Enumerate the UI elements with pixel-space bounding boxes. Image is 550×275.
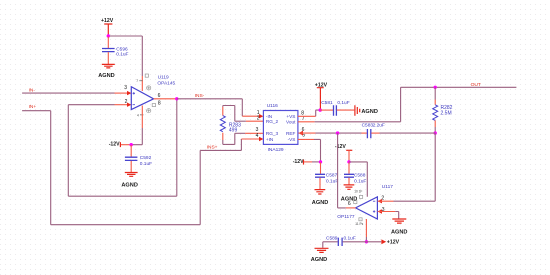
wire IN+ horizontal xyxy=(22,110,51,112)
svg-text:AGND: AGND xyxy=(121,183,137,189)
wire +12V rail to U119 xyxy=(108,36,142,76)
svg-text:4: 4 xyxy=(137,113,139,117)
wire INS+ up to pin 4 xyxy=(240,139,242,150)
junction +12V C596 xyxy=(107,34,110,37)
ground AGND under C592 xyxy=(121,173,137,189)
resistor R282 xyxy=(433,87,453,133)
svg-text:OP1177: OP1177 xyxy=(337,214,355,220)
junction R282 bottom xyxy=(434,131,437,134)
svg-text:U116: U116 xyxy=(267,103,278,109)
svg-text:+IN: +IN xyxy=(266,137,273,142)
svg-text:2: 2 xyxy=(257,115,260,121)
pin 2 stub U117 xyxy=(378,199,394,203)
decoration square upper left U117 xyxy=(354,201,357,204)
decoration square upper right U117 xyxy=(359,195,362,198)
svg-text:+12V: +12V xyxy=(101,18,114,24)
wire INS- down to pin 1 xyxy=(241,99,243,116)
wire C583 to R282 bottom xyxy=(380,132,436,134)
power -12V left xyxy=(109,141,132,147)
pin 3 stub U119 xyxy=(115,91,132,95)
svg-text:0.1uF: 0.1uF xyxy=(116,51,128,57)
op-amp U119 xyxy=(131,75,175,110)
svg-text:6: 6 xyxy=(158,93,161,99)
capacitor C589 xyxy=(323,236,382,246)
svg-text:0.1uF: 0.1uF xyxy=(326,179,338,185)
ground AGND under C587 xyxy=(312,190,328,207)
capacitor C592 xyxy=(125,145,152,172)
pin 3 stub U116 xyxy=(235,132,264,134)
wire Vout to OUT xyxy=(315,87,517,122)
power +12V top left xyxy=(101,18,114,36)
svg-text:-12V: -12V xyxy=(335,144,346,150)
ground AGND under C596 xyxy=(98,64,115,79)
svg-text:C587: C587 xyxy=(326,172,338,178)
wire RG_3 loop bottom xyxy=(223,133,235,144)
wire U119 V+ red xyxy=(141,76,143,91)
decoration square right U119 xyxy=(152,104,155,107)
resistor R283 xyxy=(220,107,241,140)
svg-text:0.1uF: 0.1uF xyxy=(354,179,366,185)
wire U119 V- to -12V xyxy=(131,128,142,145)
wire outer loop bottom xyxy=(51,224,201,226)
pin 7 stub U116 xyxy=(298,121,315,123)
power +12V mid xyxy=(315,82,328,110)
junction +12V C581 xyxy=(319,108,322,111)
pin 6 REF stub U116 xyxy=(298,131,315,136)
svg-text:8: 8 xyxy=(158,100,161,106)
decoration square lower U117 xyxy=(359,218,362,221)
svg-text:-12V: -12V xyxy=(293,159,304,165)
wire IN- to U119 pin 3 xyxy=(22,92,114,94)
power -12V mid left xyxy=(293,159,312,165)
svg-text:7: 7 xyxy=(136,79,138,83)
svg-text:2.2uF: 2.2uF xyxy=(373,123,385,129)
junction U119 output xyxy=(175,97,178,100)
svg-text:IN+: IN+ xyxy=(29,104,37,110)
svg-text:OPA145: OPA145 xyxy=(157,80,175,86)
wire pin8 to +12V junction xyxy=(316,110,321,116)
junction -12V C587 xyxy=(319,160,322,163)
capacitor C583 xyxy=(362,123,385,139)
svg-text:0.1uF: 0.1uF xyxy=(337,100,349,106)
svg-text:11 Ps: 11 Ps xyxy=(355,222,363,226)
capacitor C588 xyxy=(344,162,366,184)
junction C589 +12V xyxy=(365,240,368,243)
wire U117 V+ down xyxy=(365,219,367,237)
svg-text:-VS: -VS xyxy=(288,137,296,142)
svg-text:REF: REF xyxy=(286,131,296,136)
svg-text:C581: C581 xyxy=(321,100,333,106)
svg-text:2: 2 xyxy=(125,99,128,105)
wire feedback bottom xyxy=(68,195,177,197)
svg-text:4: 4 xyxy=(256,133,259,139)
wire feedback left side up xyxy=(67,105,69,197)
svg-text:3: 3 xyxy=(124,85,127,91)
svg-text:AGND: AGND xyxy=(391,229,407,235)
svg-text:2.5M: 2.5M xyxy=(441,110,452,116)
ground AGND sideways C581 xyxy=(355,105,378,116)
pin 8 stub U116 xyxy=(298,115,316,117)
junction OUT R282 xyxy=(434,86,437,89)
wire feedback right side down xyxy=(176,99,178,196)
svg-text:-12V: -12V xyxy=(109,141,120,147)
capacitor C581 xyxy=(320,100,354,116)
power -12V above C588 xyxy=(335,144,352,162)
svg-text:INS-: INS- xyxy=(195,93,205,99)
capacitor C596 xyxy=(102,37,129,65)
svg-text:INS+: INS+ xyxy=(207,144,218,150)
capacitor C587 xyxy=(315,162,338,189)
svg-text:RG_3: RG_3 xyxy=(266,131,279,136)
svg-text:U117: U117 xyxy=(382,184,393,190)
decoration square above U119 xyxy=(145,74,148,77)
wire riser up to INS+ xyxy=(199,150,201,224)
decoration circle-plus lower U119 xyxy=(147,109,151,113)
svg-text:3: 3 xyxy=(256,127,259,133)
svg-text:C589: C589 xyxy=(326,236,338,242)
op-amp U117 xyxy=(337,184,393,220)
ground AGND C589 xyxy=(311,242,329,263)
wire feedback to pin 2 xyxy=(68,104,114,106)
svg-text:RG_2: RG_2 xyxy=(266,119,279,124)
wire pin2 U117 to R282 bottom xyxy=(394,133,436,201)
wire U117 V+ to +12V rail xyxy=(365,237,367,242)
svg-text:OUT: OUT xyxy=(471,82,481,88)
pin 4 stub U116 xyxy=(241,137,263,141)
svg-text:10 1F: 10 1F xyxy=(354,190,362,194)
wire IN+ riser down xyxy=(50,111,52,225)
pin 1 stub U116 xyxy=(242,114,263,118)
svg-text:+12V: +12V xyxy=(387,240,400,246)
svg-text:AGND: AGND xyxy=(311,257,327,263)
svg-text:AGND: AGND xyxy=(361,109,377,115)
svg-text:INA129: INA129 xyxy=(268,147,284,153)
junction -12V C592 xyxy=(130,143,133,146)
pin 5 stub U116 xyxy=(298,138,314,140)
wire pin5 to -12V xyxy=(314,139,321,162)
wire U117 output to REF xyxy=(338,133,346,208)
decoration pin4 tiny text xyxy=(137,113,144,117)
wire -12V to junction xyxy=(312,161,321,163)
pin 3 stub U117 xyxy=(378,209,399,218)
wire INS+ horizontal xyxy=(200,149,241,151)
svg-text:0.1uF: 0.1uF xyxy=(344,236,356,242)
svg-text:U119: U119 xyxy=(158,75,169,81)
svg-text:499: 499 xyxy=(229,128,238,134)
wire REF node xyxy=(316,132,362,134)
pin 2 stub U116 xyxy=(235,120,264,122)
svg-text:Vout: Vout xyxy=(286,119,296,124)
pin 6 stub U117 xyxy=(346,207,356,209)
pin 6 output stub U119 xyxy=(154,98,177,100)
pin 2 stub U119 xyxy=(115,103,132,107)
svg-text:6: 6 xyxy=(348,201,351,207)
junction REF xyxy=(336,131,339,134)
decoration circle-plus upper U119 xyxy=(147,86,151,90)
svg-text:C588: C588 xyxy=(354,172,366,178)
decoration pin7 tiny text xyxy=(136,79,142,83)
svg-text:IN-: IN- xyxy=(29,87,36,93)
power +12V bottom right xyxy=(381,239,399,245)
svg-text:C592: C592 xyxy=(140,155,152,161)
svg-text:0.1uF: 0.1uF xyxy=(140,161,152,167)
svg-text:AGND: AGND xyxy=(312,200,328,206)
IC U116 INA129 xyxy=(263,103,298,153)
junction -12V C588 U117 xyxy=(347,160,350,163)
ground AGND under C588 xyxy=(341,185,357,202)
wire -12V to U117 V- top xyxy=(349,162,367,197)
svg-text:AGND: AGND xyxy=(98,73,114,79)
wire U119 V- down xyxy=(141,106,143,129)
wire RG_2 loop top xyxy=(223,106,235,122)
ground AGND U117 pin3 xyxy=(391,219,407,235)
wire INS- horizontal xyxy=(177,98,243,100)
